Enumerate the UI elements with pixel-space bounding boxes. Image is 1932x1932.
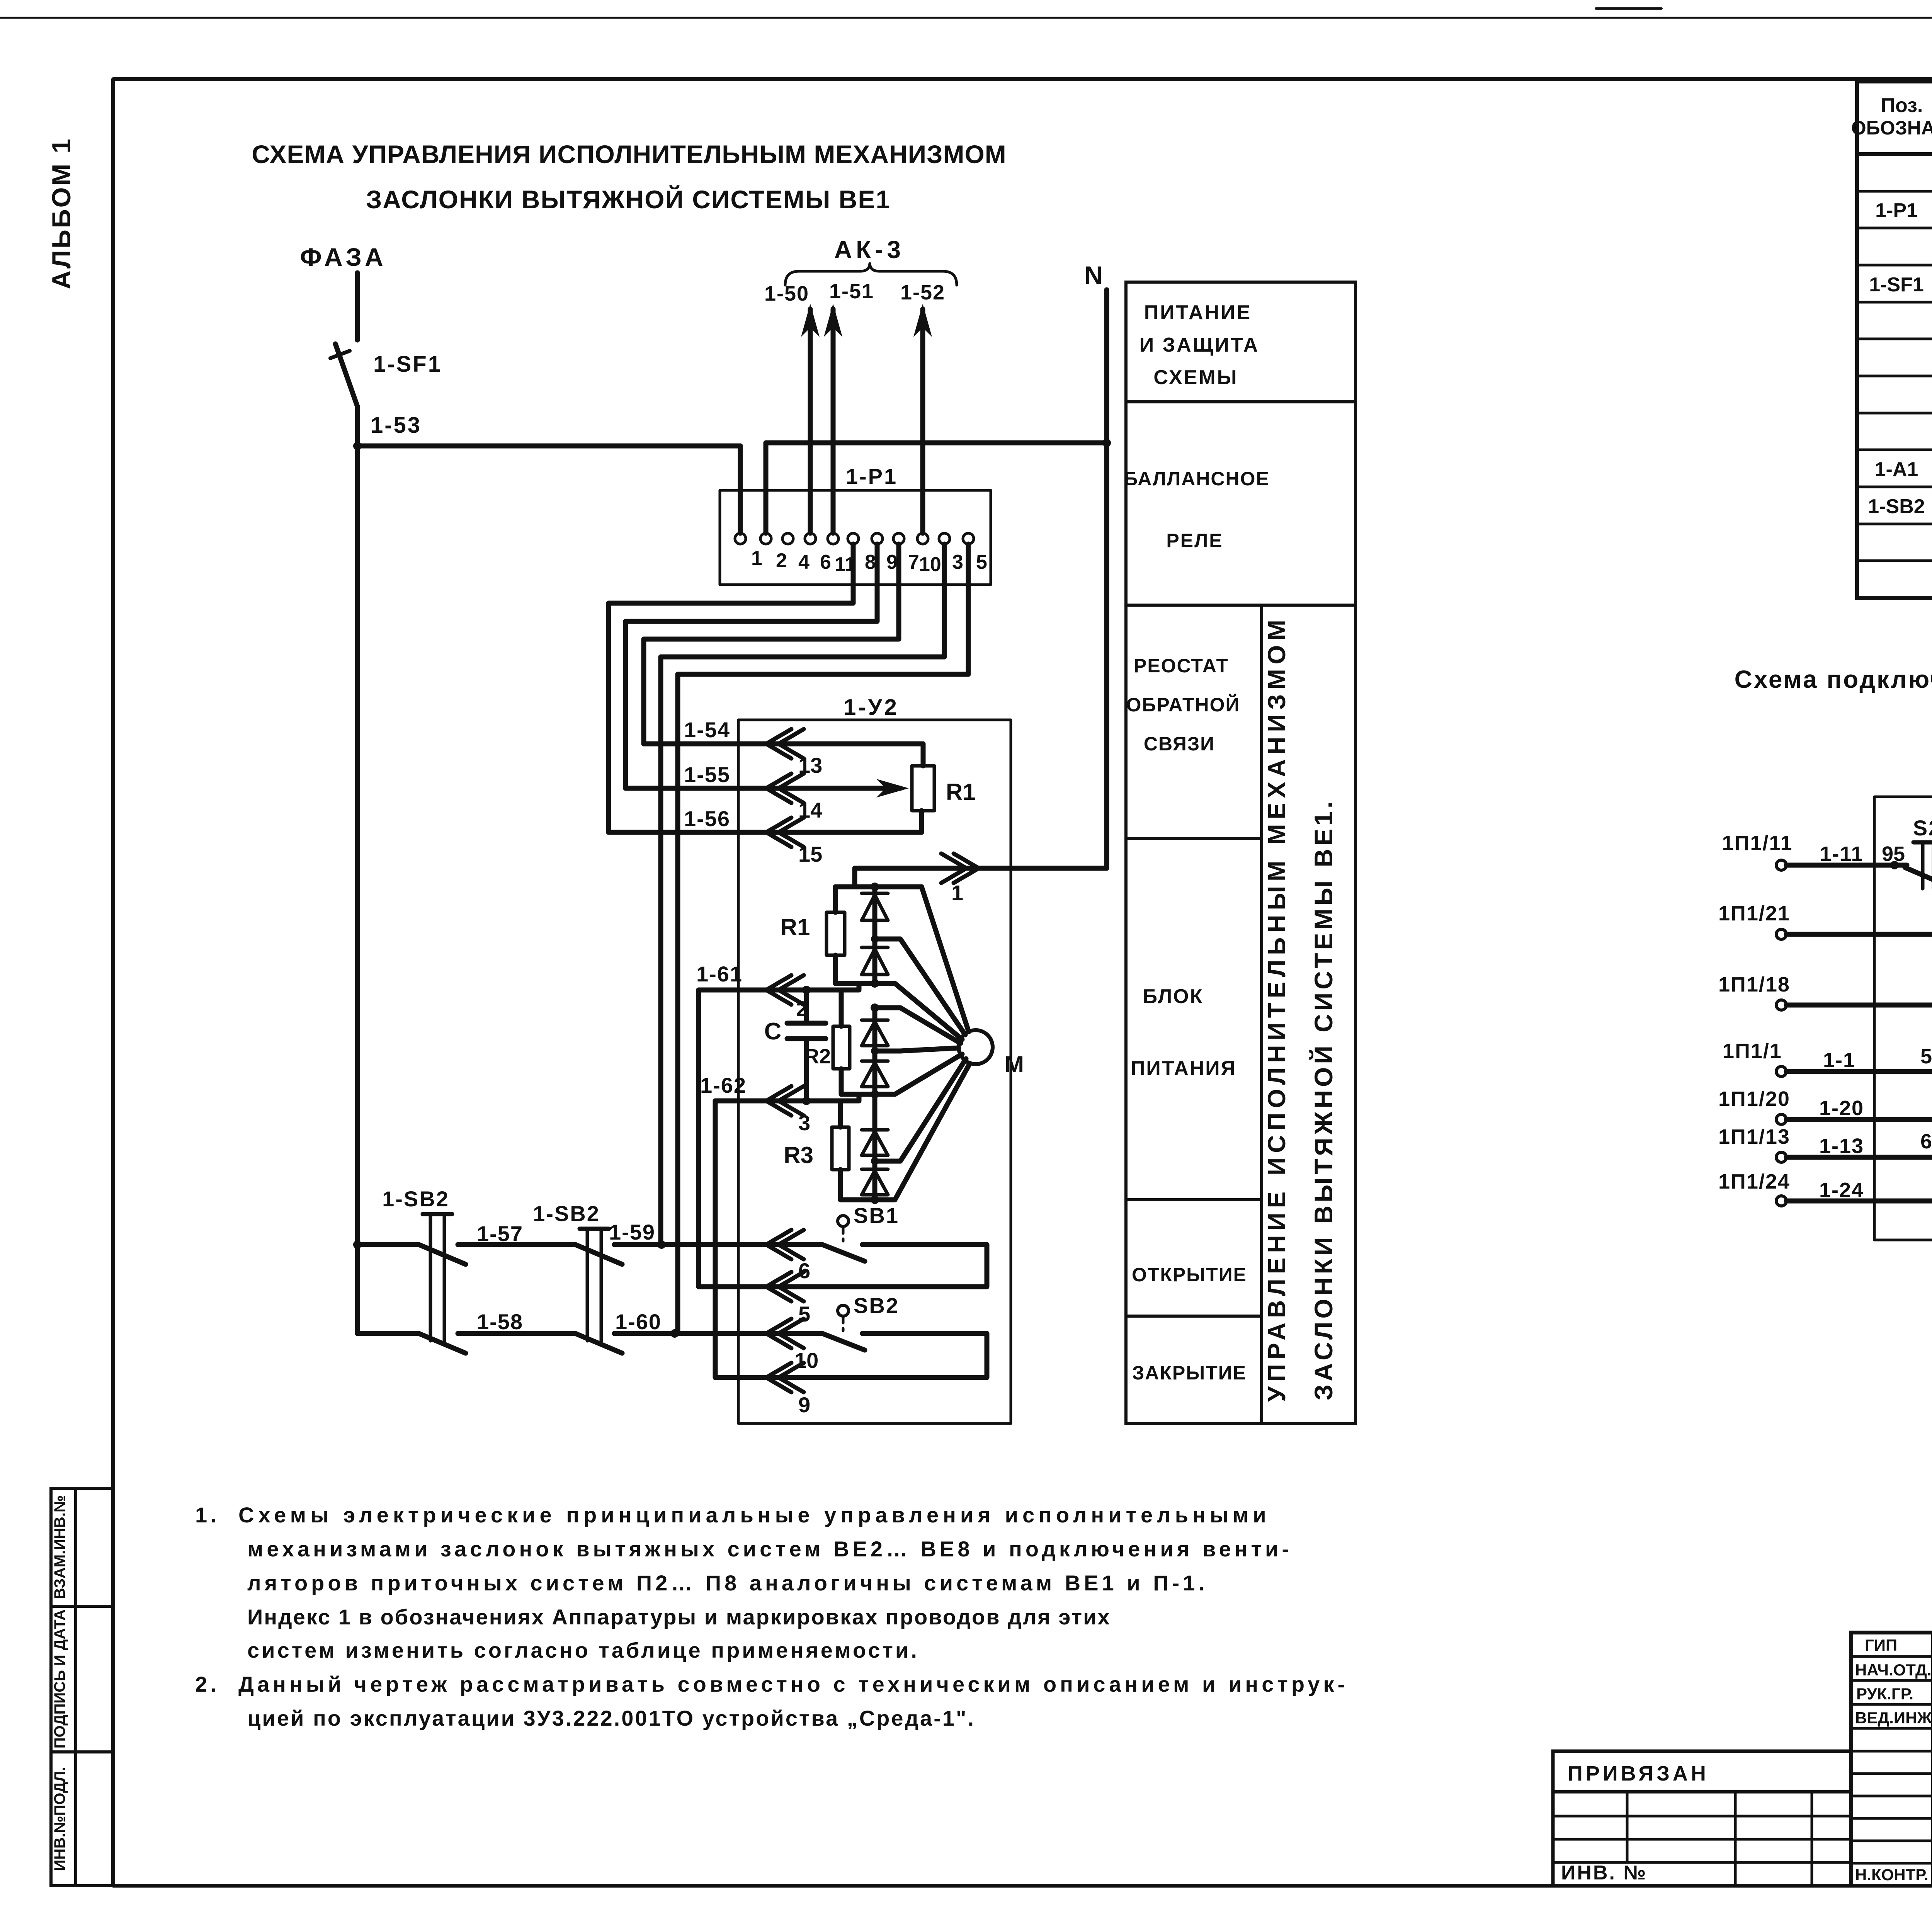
- svg-text:1-20: 1-20: [1819, 1097, 1864, 1120]
- table row 1-А1 Пускатель: [1875, 453, 1932, 490]
- svg-text:ОТКРЫТИЕ: ОТКРЫТИЕ: [1132, 1264, 1247, 1286]
- svg-text:4: 4: [798, 551, 810, 573]
- connector 5: [766, 1272, 810, 1326]
- title block signature table: [1851, 1633, 1932, 1886]
- table row 1-SF1 Выключатель: [1869, 273, 1932, 297]
- button 1-SB2 left: [382, 1187, 466, 1353]
- svg-text:1-11: 1-11: [1820, 842, 1863, 866]
- wire 1-61 row 2: [696, 962, 859, 1021]
- svg-text:1-SB2: 1-SB2: [533, 1201, 600, 1226]
- sidebar box Инв.№подл.: [51, 1752, 113, 1886]
- svg-text:1-51: 1-51: [829, 280, 874, 303]
- wire row 9 left: [715, 1101, 766, 1378]
- pin 4: [782, 533, 810, 573]
- svg-text:5: 5: [976, 551, 987, 573]
- cell Баллансное реле: [1124, 468, 1270, 551]
- wire pin1 riser: [738, 446, 743, 533]
- svg-text:15: 15: [798, 842, 822, 866]
- svg-text:1П1/18: 1П1/18: [1718, 973, 1790, 996]
- resistor R1 power: [781, 887, 845, 983]
- sig row Вед.инж Фельдман: [1855, 1709, 1932, 1727]
- notes: [195, 1503, 1348, 1730]
- svg-text:1-52: 1-52: [900, 281, 945, 304]
- wire 1-53 bus: [353, 413, 740, 450]
- wire 1-54 row 13: [644, 718, 923, 777]
- svg-text:SB1: SB1: [854, 1203, 899, 1228]
- connector 10: [766, 1319, 818, 1372]
- cell Питание и защита схемы: [1139, 301, 1259, 389]
- svg-text:7: 7: [908, 551, 919, 573]
- table header Поз. обознач.: [1851, 94, 1932, 139]
- svg-text:1: 1: [751, 547, 762, 570]
- pin 8: [848, 533, 876, 573]
- svg-text:1П1/11: 1П1/11: [1722, 832, 1793, 855]
- svg-text:С: С: [764, 1018, 782, 1045]
- pin 2: [760, 533, 787, 572]
- svg-text:СХЕМА УПРАВЛЕНИЯ ИСПОЛНИТЕЛЬ: СХЕМА УПРАВЛЕНИЯ ИСПОЛНИТЕЛЬНЫМ МЕХАНИЗМ…: [252, 140, 1007, 168]
- wire N drop: [1104, 290, 1109, 868]
- svg-text:ЗАКРЫТИЕ: ЗАКРЫТИЕ: [1132, 1362, 1247, 1384]
- wire row 5 left: [699, 990, 766, 1287]
- svg-text:1-54: 1-54: [684, 718, 730, 742]
- svg-text:S2: S2: [1913, 816, 1932, 840]
- connector 6: [766, 1230, 810, 1283]
- svg-text:ПИТАНИЯ: ПИТАНИЯ: [1131, 1057, 1236, 1080]
- wire 1-62 row 3: [700, 1073, 859, 1135]
- wire row close circuit: [357, 1310, 822, 1338]
- wire SB2 loop to row 9: [766, 1333, 987, 1378]
- motor fan wires: [875, 887, 970, 1200]
- svg-text:1-Р1: 1-Р1: [1875, 199, 1918, 222]
- svg-text:1-1: 1-1: [1823, 1049, 1855, 1072]
- svg-text:М: М: [1005, 1051, 1024, 1077]
- table row 1-Р1 Баллансное реле: [1875, 199, 1932, 223]
- svg-text:ПИТАНИЕ: ПИТАНИЕ: [1144, 301, 1252, 324]
- svg-text:1-61: 1-61: [696, 962, 743, 986]
- svg-text:Схема подключения вентилятор: Схема подключения вентилятора приточной: [1735, 665, 1932, 693]
- wire row6 to contact 61: [1786, 1130, 1932, 1162]
- sig row Рук.гр. Налетова: [1856, 1685, 1932, 1703]
- svg-text:1-53: 1-53: [371, 413, 422, 438]
- breaker 1-SF1: [330, 344, 442, 406]
- svg-text:10: 10: [919, 553, 941, 576]
- sidebar divider: [74, 1488, 77, 1886]
- svg-text:1-SF1: 1-SF1: [1869, 274, 1924, 296]
- wire SB1 loop to row 5: [766, 1245, 987, 1287]
- svg-text:1-59: 1-59: [609, 1220, 655, 1244]
- svg-text:ляторов приточных систем П2: ляторов приточных систем П2… П8 аналогич…: [247, 1571, 1208, 1595]
- cell Реостат обратной связи: [1126, 655, 1240, 755]
- button 1-SB2 right: [533, 1201, 622, 1353]
- svg-text:3: 3: [798, 1111, 810, 1135]
- svg-text:систем изменить согласно табли: систем изменить согласно таблице применя…: [247, 1638, 919, 1662]
- svg-text:БЛОК: БЛОК: [1143, 985, 1204, 1008]
- wire phase down to buttons: [355, 446, 360, 1333]
- svg-text:ГИП: ГИП: [1865, 1636, 1897, 1654]
- wire pin2 to N: [766, 439, 1111, 533]
- sidebar box Взам.инв.№: [51, 1488, 113, 1606]
- svg-text:И ЗАЩИТА: И ЗАЩИТА: [1139, 334, 1259, 356]
- terminal 1П1/24: [1718, 1170, 1864, 1206]
- sig row Н.контр. Фейгин: [1855, 1866, 1932, 1884]
- pin 1: [735, 533, 762, 570]
- svg-text:R1: R1: [946, 779, 976, 805]
- svg-text:БАЛЛАНСНОЕ: БАЛЛАНСНОЕ: [1124, 468, 1270, 490]
- svg-text:SB2: SB2: [854, 1293, 899, 1318]
- svg-text:R2: R2: [804, 1045, 831, 1068]
- pin 7: [893, 533, 919, 573]
- resistor R2: [804, 990, 850, 1094]
- svg-text:Схемы электрические принципиал: Схемы электрические принципиальные управ…: [238, 1503, 1270, 1527]
- svg-text:1-60: 1-60: [615, 1310, 662, 1334]
- terminal 1П1/21: [1718, 902, 1790, 939]
- wire 1-1 to contact 53: [1786, 1045, 1932, 1076]
- brace AK-3: [785, 264, 957, 285]
- wire arrow 1-51: [824, 280, 874, 533]
- svg-text:2: 2: [776, 549, 787, 572]
- pushbutton SB2: [822, 1293, 899, 1350]
- svg-text:1П1/20: 1П1/20: [1718, 1087, 1790, 1111]
- starter boundary 1-А1: [1874, 773, 1932, 1240]
- svg-text:Поз.: Поз.: [1881, 94, 1923, 117]
- svg-text:8: 8: [865, 551, 876, 573]
- revision grid: [1553, 1792, 1851, 1886]
- table row 1-SB2 Кнопочный пост: [1868, 495, 1932, 519]
- svg-text:РЕОСТАТ: РЕОСТАТ: [1134, 655, 1229, 677]
- wire pin8 to row15: [609, 544, 853, 832]
- wire pin5 to row10: [678, 544, 968, 1333]
- svg-text:ВЗАМ.ИНВ.№: ВЗАМ.ИНВ.№: [51, 1495, 68, 1599]
- svg-text:R1: R1: [781, 914, 810, 940]
- terminal 1П1/1: [1723, 1039, 1786, 1077]
- svg-text:ЗАСЛОНКИ ВЫТЯЖНОЙ СИСТЕМЫ В: ЗАСЛОНКИ ВЫТЯЖНОЙ СИСТЕМЫ ВЕ1.: [1309, 798, 1338, 1400]
- wire row open circuit: [353, 1220, 822, 1249]
- svg-text:Данный чертеж рассматривать: Данный чертеж рассматривать совместно с …: [238, 1672, 1348, 1696]
- device block 1-У2: [738, 695, 1011, 1423]
- scan top edge line: [0, 17, 1932, 19]
- sig row ГИП Абрамова: [1865, 1636, 1932, 1654]
- svg-text:1-А1: 1-А1: [1875, 458, 1918, 481]
- svg-text:1-SF1: 1-SF1: [373, 352, 442, 377]
- svg-text:Н.КОНТР.: Н.КОНТР.: [1855, 1866, 1929, 1884]
- svg-text:Индекс 1 в обозначениях Аппара: Индекс 1 в обозначениях Аппаратуры и мар…: [247, 1605, 1111, 1629]
- wire row3: [1786, 1003, 1932, 1008]
- terminal 1П1/20: [1718, 1087, 1864, 1124]
- svg-text:РЕЛЕ: РЕЛЕ: [1166, 530, 1223, 551]
- svg-text:1-У2: 1-У2: [844, 695, 899, 720]
- wire below breaker: [355, 406, 360, 446]
- svg-text:1-62: 1-62: [700, 1073, 747, 1097]
- wire 1-55 row 14 wiper: [626, 762, 909, 822]
- svg-text:АЛЬБОМ 1: АЛЬБОМ 1: [47, 137, 76, 289]
- svg-text:ВЕД.ИНЖ: ВЕД.ИНЖ: [1855, 1709, 1932, 1727]
- svg-text:3: 3: [952, 551, 963, 573]
- svg-text:ЗАСЛОНКИ ВЫТЯЖНОЙ СИСТЕМЫ В: ЗАСЛОНКИ ВЫТЯЖНОЙ СИСТЕМЫ ВЕ1: [366, 185, 891, 214]
- diode chain 3: [862, 1094, 888, 1204]
- svg-text:1-SB2: 1-SB2: [1868, 495, 1925, 518]
- relay block 1-P1: [720, 464, 991, 585]
- svg-text:СВЯЗИ: СВЯЗИ: [1144, 733, 1215, 755]
- pin 11: [828, 533, 856, 576]
- svg-text:ФАЗА: ФАЗА: [300, 243, 386, 271]
- wire output 1 to N: [855, 854, 1107, 905]
- svg-text:АК-3: АК-3: [834, 236, 905, 264]
- svg-text:ПРИВЯЗАН: ПРИВЯЗАН: [1568, 1762, 1709, 1785]
- svg-text:9: 9: [798, 1393, 810, 1417]
- svg-text:ИНВ.№ПОДЛ.: ИНВ.№ПОДЛ.: [51, 1767, 68, 1871]
- wire row2 to contact 13: [1786, 865, 1932, 939]
- svg-text:10: 10: [794, 1348, 818, 1372]
- svg-text:N: N: [1084, 261, 1103, 289]
- svg-text:1-56: 1-56: [684, 806, 730, 831]
- rheostat R1 feedback: [912, 766, 976, 811]
- svg-text:1-58: 1-58: [477, 1310, 523, 1334]
- pin 10: [917, 533, 941, 576]
- wire 1-11: [1786, 842, 1907, 869]
- sig row Нач.отд. Фейгин: [1855, 1660, 1932, 1679]
- svg-text:ИНВ. №: ИНВ. №: [1561, 1862, 1647, 1884]
- sidebar box Подпись и дата: [51, 1606, 113, 1752]
- svg-text:R3: R3: [784, 1142, 813, 1168]
- terminal 1П1/11: [1722, 832, 1793, 870]
- svg-text:СХЕМЫ: СХЕМЫ: [1153, 366, 1238, 389]
- svg-text:53: 53: [1920, 1045, 1932, 1068]
- pin 3: [939, 533, 963, 573]
- pushbutton SB1: [822, 1203, 899, 1261]
- function column box schematic 1: [1126, 282, 1355, 1423]
- diode chain 1: [835, 887, 888, 988]
- svg-text:1-SB2: 1-SB2: [382, 1187, 449, 1211]
- svg-text:1: 1: [951, 881, 963, 905]
- svg-text:1.: 1.: [195, 1503, 220, 1527]
- svg-text:1П1/21: 1П1/21: [1718, 902, 1790, 925]
- svg-text:95: 95: [1882, 842, 1905, 866]
- svg-text:6: 6: [820, 551, 831, 573]
- wire pin7 to row13: [644, 544, 899, 744]
- svg-text:РУК.ГР.: РУК.ГР.: [1856, 1685, 1913, 1703]
- svg-text:9: 9: [886, 551, 898, 573]
- svg-text:61: 61: [1920, 1130, 1932, 1153]
- switch S2: [1905, 816, 1932, 889]
- wire loop row6 to row7: [1786, 1157, 1932, 1201]
- pin 6: [805, 533, 831, 573]
- svg-text:2.: 2.: [195, 1672, 220, 1696]
- wire pin3 to row6: [661, 544, 944, 1245]
- svg-text:ПОДПИСЬ И ДАТА: ПОДПИСЬ И ДАТА: [51, 1609, 68, 1748]
- svg-text:ОБОЗНАЧ.: ОБОЗНАЧ.: [1851, 117, 1932, 139]
- wire arrow 1-50: [764, 282, 820, 533]
- connector 9: [766, 1363, 810, 1417]
- box Привязан: [1553, 1751, 1851, 1792]
- svg-text:1-13: 1-13: [1819, 1134, 1864, 1158]
- svg-text:1-24: 1-24: [1819, 1179, 1864, 1202]
- svg-text:1П1/24: 1П1/24: [1718, 1170, 1790, 1193]
- pin 5: [963, 533, 987, 573]
- cell Блок питания: [1131, 985, 1236, 1080]
- capacitor C: [764, 990, 826, 1101]
- svg-text:цией по эксплуатации 3У3.222.0: цией по эксплуатации 3У3.222.001ТО устро…: [247, 1706, 975, 1730]
- svg-text:ОБРАТНОЙ: ОБРАТНОЙ: [1126, 694, 1240, 716]
- diode chain 2: [841, 1003, 888, 1099]
- power block top node: [835, 883, 922, 891]
- svg-text:1П1/1: 1П1/1: [1723, 1039, 1782, 1063]
- pin 9: [872, 533, 898, 573]
- motor M: [959, 1030, 1024, 1077]
- wire 1-56 row 15: [609, 806, 922, 866]
- svg-text:НАЧ.ОТД.: НАЧ.ОТД.: [1855, 1661, 1932, 1679]
- wire pin9 to row14: [626, 544, 877, 788]
- wire arrow 1-52: [900, 281, 945, 533]
- resistor R3: [784, 1101, 875, 1200]
- terminal 1П1/13: [1718, 1125, 1864, 1162]
- component table: [1857, 82, 1932, 598]
- svg-text:1П1/13: 1П1/13: [1718, 1125, 1790, 1148]
- wire phase drop: [355, 273, 360, 340]
- svg-text:механизмами заслонок вытяжны: механизмами заслонок вытяжных систем ВЕ2…: [247, 1537, 1293, 1561]
- terminal 1П1/18: [1718, 973, 1790, 1010]
- svg-text:УПРАВЛЕНИЕ ИСПОЛНИТЕЛЬНЫМ МЕ: УПРАВЛЕНИЕ ИСПОЛНИТЕЛЬНЫМ МЕХАНИЗМОМ: [1263, 615, 1291, 1402]
- svg-text:1-55: 1-55: [684, 762, 730, 787]
- svg-text:1-Р1: 1-Р1: [846, 464, 898, 488]
- svg-text:1-50: 1-50: [764, 282, 809, 305]
- wire loop row4 to row5: [1786, 1071, 1932, 1119]
